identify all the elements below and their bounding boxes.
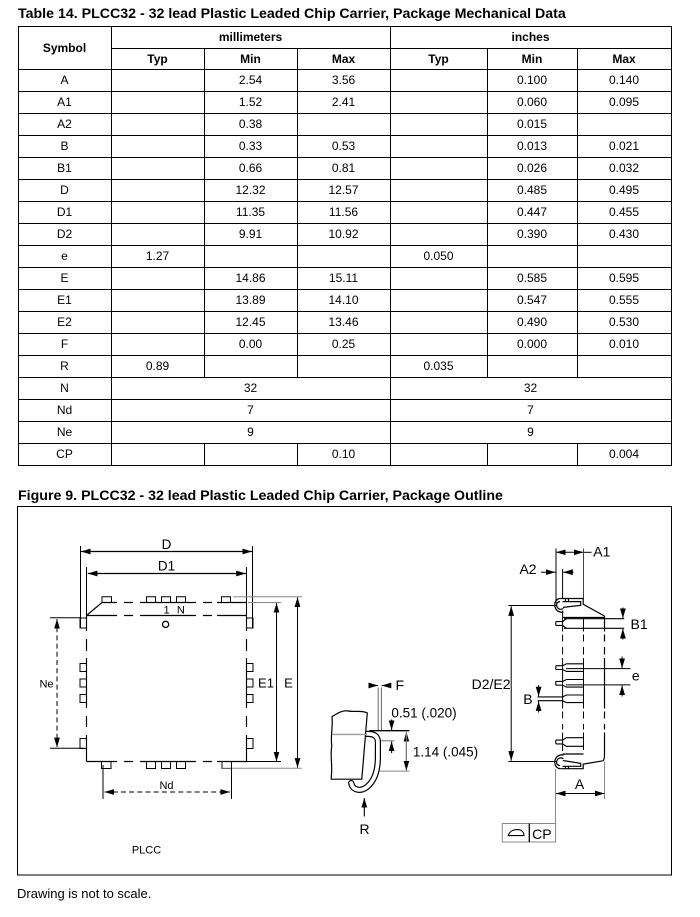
svg-text:E1: E1	[258, 676, 274, 691]
svg-text:A1: A1	[593, 544, 610, 560]
svg-text:e: e	[632, 668, 640, 684]
svg-text:B1: B1	[631, 616, 648, 632]
svg-text:Nd: Nd	[159, 780, 173, 792]
svg-text:1.14 (.045): 1.14 (.045)	[413, 744, 478, 759]
svg-text:F: F	[396, 677, 405, 693]
svg-text:PLCC: PLCC	[132, 845, 161, 857]
svg-text:D2/E2: D2/E2	[472, 676, 511, 692]
svg-text:A: A	[575, 776, 585, 792]
svg-text:E: E	[284, 676, 293, 691]
svg-text:Ne: Ne	[39, 679, 53, 691]
svg-text:CP: CP	[532, 826, 551, 842]
svg-text:B: B	[523, 691, 532, 707]
svg-text:D: D	[162, 537, 172, 552]
svg-text:1: 1	[163, 605, 169, 617]
svg-text:D1: D1	[158, 559, 175, 574]
svg-text:N: N	[177, 605, 185, 617]
svg-text:R: R	[360, 821, 370, 837]
svg-text:0.51 (.020): 0.51 (.020)	[391, 706, 456, 721]
svg-text:A2: A2	[519, 561, 536, 577]
